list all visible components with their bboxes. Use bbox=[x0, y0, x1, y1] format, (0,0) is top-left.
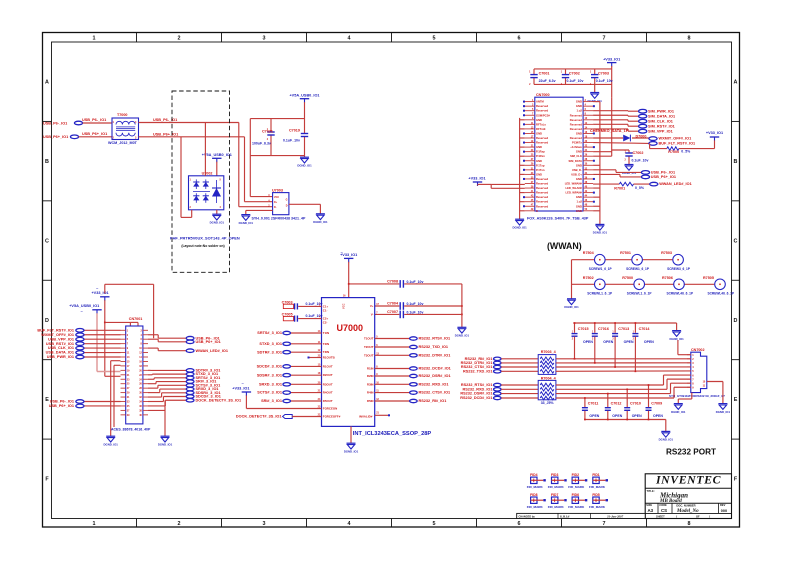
ground symbol bbox=[455, 327, 470, 337]
svg-text:DGND_IO1: DGND_IO1 bbox=[671, 410, 686, 414]
svg-text:U7000: U7000 bbox=[337, 323, 364, 333]
svg-text:OF: OF bbox=[696, 514, 700, 518]
power bbox=[91, 291, 109, 301]
wire BUF_FLT line bbox=[593, 142, 649, 145]
dashed layout box bbox=[172, 91, 230, 272]
svg-text:R2OUT: R2OUT bbox=[323, 373, 333, 377]
wire SDSR#_3_IO1 right cn7001 bbox=[148, 393, 186, 397]
svg-text:ANTM: ANTM bbox=[536, 100, 545, 104]
wire SIM_DATA_IO1 bbox=[593, 114, 639, 117]
port BUF_FLT_RST#_IO1 bbox=[76, 329, 84, 333]
svg-text:WXMIT_OFF#_IO1: WXMIT_OFF#_IO1 bbox=[41, 333, 74, 337]
capacitor C7002 bbox=[612, 150, 649, 165]
wire T2OUT to RS232_TXD_IO1 bbox=[375, 346, 410, 348]
svg-text:R5OUT: R5OUT bbox=[323, 399, 333, 403]
ground symbol bbox=[104, 436, 119, 446]
svg-text:R7003_4: R7003_4 bbox=[541, 350, 557, 354]
port RS232_DTR#_IO1 cn7002 bbox=[494, 361, 502, 364]
svg-text:RS232_TXD_IO1: RS232_TXD_IO1 bbox=[419, 345, 449, 349]
capacitor C7015 bbox=[572, 322, 594, 360]
power bbox=[706, 131, 723, 141]
wire screw row1 bbox=[572, 259, 673, 261]
svg-text:VCC: VCC bbox=[342, 303, 346, 309]
svg-text:Reserved: Reserved bbox=[536, 109, 548, 113]
wire power to U7002 bbox=[216, 162, 218, 176]
svg-text:SIZE: SIZE bbox=[646, 503, 652, 507]
svg-text:GND: GND bbox=[536, 159, 542, 163]
screw R7501 bbox=[620, 251, 650, 271]
svg-text:FORCEOFF#: FORCEOFF# bbox=[323, 415, 341, 419]
svg-text:C7004: C7004 bbox=[387, 302, 399, 306]
svg-text:TITLE:: TITLE: bbox=[647, 489, 655, 493]
svg-text:WXMIT_OFF#_IO1: WXMIT_OFF#_IO1 bbox=[659, 137, 692, 141]
svg-text:U7003: U7003 bbox=[272, 188, 283, 192]
svg-text:6: 6 bbox=[518, 521, 521, 527]
svg-text:OPEN: OPEN bbox=[632, 414, 642, 418]
port USB_CLK_IO1 bbox=[76, 346, 84, 350]
svg-text:C2-: C2- bbox=[323, 321, 328, 325]
wire v33 rail top bbox=[105, 284, 154, 338]
port USB_P6- wwan bbox=[641, 171, 649, 175]
svg-text:RS232_DTR#_IO1: RS232_DTR#_IO1 bbox=[419, 353, 451, 357]
svg-text:T7000: T7000 bbox=[117, 113, 127, 117]
wire USB_P6- to port bbox=[593, 170, 641, 173]
port RS232_RI#_IO1 cn7002 bbox=[494, 357, 502, 360]
power bbox=[289, 94, 319, 103]
svg-text:USB_P6-_IO1: USB_P6-_IO1 bbox=[153, 118, 177, 122]
svg-text:C7008: C7008 bbox=[387, 280, 398, 284]
svg-text:SIM_DATA: SIM_DATA bbox=[569, 159, 582, 163]
svg-text:R1OUT: R1OUT bbox=[323, 364, 333, 368]
port SIM_DATA_IO1 bbox=[639, 114, 647, 118]
wire v5a down to pin bbox=[97, 313, 121, 371]
svg-text:T1OUT: T1OUT bbox=[364, 337, 374, 341]
svg-text:WWAN_LED#_IO1: WWAN_LED#_IO1 bbox=[659, 182, 692, 186]
wire WXMIT line bbox=[593, 137, 649, 139]
svg-text:WCM_J012_M0T: WCM_J012_M0T bbox=[108, 141, 138, 145]
wire left bus down2 bbox=[111, 361, 121, 427]
ground symbol bbox=[622, 165, 637, 175]
port SRI#_3_IO1 right cn7001 bbox=[186, 380, 194, 384]
svg-text:0.1uF_10v: 0.1uF_10v bbox=[407, 302, 424, 306]
port USB_DATA_IO1 bbox=[76, 351, 84, 355]
svg-text:RS232_DSR#_IO1: RS232_DSR#_IO1 bbox=[419, 374, 451, 378]
svg-text:BUF_FLT_RST#_IO1: BUF_FLT_RST#_IO1 bbox=[659, 142, 696, 146]
svg-text:Reserved: Reserved bbox=[536, 104, 548, 108]
svg-text:7: 7 bbox=[603, 36, 606, 42]
svg-text:USB_DATA_IO1: USB_DATA_IO1 bbox=[46, 351, 74, 355]
wire v33 to pins 37 39 bbox=[478, 184, 525, 188]
svg-text:C7014: C7014 bbox=[639, 327, 651, 331]
svg-text:FID_MARK: FID_MARK bbox=[548, 505, 565, 509]
revision strip bbox=[517, 513, 646, 518]
port RS232_CTS#_IO1 bbox=[410, 391, 418, 394]
port RS232_RTS#_IO1 cn7002 bbox=[494, 383, 502, 386]
fiducial FID2 bbox=[568, 473, 587, 489]
capacitor C7011 bbox=[582, 397, 600, 420]
wire WWAN_LED line bbox=[593, 183, 650, 185]
wire SRTS#_3_IO1 right cn7001 bbox=[148, 378, 186, 379]
svg-text:SRTS#_3_IO1: SRTS#_3_IO1 bbox=[257, 331, 282, 335]
wire left bus down1 bbox=[110, 361, 112, 437]
svg-text:R1IN: R1IN bbox=[367, 367, 374, 371]
svg-text:CN7000: CN7000 bbox=[536, 93, 550, 97]
wire open cap bus top bbox=[573, 323, 676, 331]
svg-text:C7013: C7013 bbox=[618, 327, 629, 331]
svg-text:Reserved: Reserved bbox=[536, 204, 548, 208]
svg-text:T1IN: T1IN bbox=[323, 331, 329, 335]
svg-text:DGND_IO1: DGND_IO1 bbox=[564, 305, 579, 309]
svg-text:A: A bbox=[45, 80, 49, 86]
svg-text:Reserved: Reserved bbox=[536, 182, 548, 186]
fiducial FID4 bbox=[527, 473, 546, 489]
wire SRI#_3_IO1 to R5OUT bbox=[291, 400, 322, 402]
svg-text:Reserved: Reserved bbox=[570, 118, 582, 122]
svg-text:DGND_IO1: DGND_IO1 bbox=[659, 438, 674, 442]
svg-text:+V33_IO1: +V33_IO1 bbox=[468, 176, 485, 180]
svg-text:C: C bbox=[734, 238, 738, 244]
svg-text:GND: GND bbox=[576, 131, 582, 135]
wire cap gnd vertical bbox=[461, 284, 463, 327]
port SRXD_3_IO1 right cn7001 bbox=[186, 387, 194, 391]
svg-text:SDCD#_3_IO1: SDCD#_3_IO1 bbox=[257, 365, 282, 369]
svg-text:REV: REV bbox=[720, 503, 726, 507]
svg-text:USB_P6-_IO1: USB_P6-_IO1 bbox=[651, 171, 675, 175]
svg-text:USB_P6+_IO1: USB_P6+_IO1 bbox=[196, 340, 221, 344]
svg-text:DOC. NUMBER: DOC. NUMBER bbox=[676, 503, 695, 507]
svg-text:K.H.Lii: K.H.Lii bbox=[559, 515, 570, 519]
op-amp U7000 body bbox=[322, 294, 375, 426]
svg-text:GND: GND bbox=[576, 163, 582, 167]
svg-text:D: D bbox=[734, 318, 738, 324]
port SRXD_3_IO1 bbox=[283, 383, 291, 386]
pin R1OUTB bbox=[308, 355, 335, 360]
svg-text:+3.3Vaux: +3.3Vaux bbox=[570, 145, 582, 149]
svg-text:000: 000 bbox=[721, 509, 727, 513]
svg-text:USB_P6+_IO1: USB_P6+_IO1 bbox=[651, 175, 676, 179]
port RS232_RXD_IO1 cn7002 bbox=[494, 388, 502, 391]
title block bbox=[645, 474, 731, 519]
svg-text:A: A bbox=[734, 80, 738, 86]
pin FORCEOFF# bbox=[318, 414, 341, 419]
svg-text:+V33_IO1: +V33_IO1 bbox=[706, 131, 723, 135]
svg-text:C7009: C7009 bbox=[651, 402, 662, 406]
svg-text:SIM_RST#_IO1: SIM_RST#_IO1 bbox=[648, 124, 675, 128]
port WWAN_LED#_IO1 right cn7001 bbox=[186, 349, 194, 353]
svg-text:FID6: FID6 bbox=[572, 493, 579, 497]
port DOCK_DETECT#_3S_IO1 bbox=[283, 415, 293, 419]
svg-text:D7000: D7000 bbox=[636, 135, 647, 139]
wire open cap bus bottom bbox=[585, 420, 666, 432]
port SCTS#_3_IO1 right cn7001 bbox=[186, 384, 194, 388]
wire SCTS#_3_IO1 to R4OUT bbox=[291, 392, 322, 394]
wire R5IN to RS232_RI#_IO1 bbox=[375, 400, 410, 402]
svg-text:+V33_IO1: +V33_IO1 bbox=[603, 57, 620, 61]
wire SRI#_3_IO1 right cn7001 bbox=[148, 382, 186, 384]
wire choke out1 bbox=[139, 122, 239, 124]
svg-text:6: 6 bbox=[518, 36, 521, 42]
ground symbol bbox=[297, 157, 312, 167]
capacitor C7016 bbox=[592, 322, 614, 364]
wire vcc decoupling bbox=[348, 283, 462, 285]
svg-text:8: 8 bbox=[688, 36, 691, 42]
wire choke out2 bbox=[139, 136, 245, 138]
pin R4IN bbox=[367, 390, 379, 395]
svg-text:LED_WPAN#: LED_WPAN# bbox=[566, 191, 583, 195]
svg-text:R7501: R7501 bbox=[620, 251, 631, 255]
svg-text:USB_P6+_IO1: USB_P6+_IO1 bbox=[49, 404, 74, 408]
connector CN7002 bbox=[687, 348, 707, 393]
svg-text:C7010: C7010 bbox=[630, 402, 641, 406]
power bbox=[232, 387, 251, 396]
svg-text:Reserved: Reserved bbox=[570, 122, 582, 126]
svg-text:SYH_0.001 2SFR00438 3421_4P: SYH_0.001 2SFR00438 3421_4P bbox=[252, 217, 307, 221]
port USB_P6+ bbox=[70, 135, 78, 139]
port SDTR#_3_IO1 right cn7001 bbox=[186, 369, 194, 373]
resistor pack R7003 bbox=[538, 350, 556, 374]
ground symbol bbox=[588, 93, 603, 103]
pin T1OUT bbox=[364, 336, 378, 341]
svg-text:C7015: C7015 bbox=[578, 327, 589, 331]
svg-text:C7003: C7003 bbox=[282, 300, 293, 304]
svg-text:T2OUT: T2OUT bbox=[364, 345, 374, 349]
svg-text:7: 7 bbox=[603, 521, 606, 527]
svg-text:RS232_TXD_IO1: RS232_TXD_IO1 bbox=[463, 369, 493, 373]
svg-text:CHANGED by: CHANGED by bbox=[519, 515, 536, 518]
svg-text:C1-: C1- bbox=[323, 308, 328, 312]
svg-text:USB_D-: USB_D- bbox=[572, 168, 582, 172]
svg-text:(Layout note:No solder on): (Layout note:No solder on) bbox=[181, 244, 224, 248]
ground symbol bbox=[210, 214, 225, 224]
svg-text:DGND_IO1: DGND_IO1 bbox=[104, 443, 119, 447]
port SRI#_3_IO1 bbox=[283, 399, 291, 402]
screw R7506 bbox=[662, 276, 694, 296]
port SIM_PWR_IO1 bbox=[639, 109, 647, 113]
wire R4IN to RS232_CTS#_IO1 bbox=[375, 392, 410, 394]
svg-text:C7001: C7001 bbox=[539, 72, 550, 76]
wire U7000 gnd bbox=[350, 426, 352, 443]
pin R1IN bbox=[367, 366, 378, 371]
svg-text:0.1uF_10v: 0.1uF_10v bbox=[596, 79, 613, 83]
wire U7003 left gnd bbox=[246, 210, 273, 214]
port USB_P6+ wwan bbox=[641, 175, 649, 179]
svg-text:Reserved: Reserved bbox=[536, 195, 548, 199]
fiducial FID6 bbox=[568, 493, 587, 509]
svg-text:INVENTEC: INVENTEC bbox=[655, 473, 721, 487]
pin T1IN bbox=[318, 330, 329, 335]
svg-text:Reserved: Reserved bbox=[570, 136, 582, 140]
port BUF_FLT_RST# bbox=[649, 142, 657, 146]
screw R7505 bbox=[703, 276, 735, 296]
wire CN7002 shield gnd2 bbox=[707, 382, 723, 404]
svg-text:FID5: FID5 bbox=[592, 493, 599, 497]
common-mode choke T7000 bbox=[112, 113, 139, 139]
svg-text:0_5%: 0_5% bbox=[681, 149, 691, 153]
pin R2OUT bbox=[318, 372, 333, 377]
pin R3OUT bbox=[318, 381, 333, 386]
svg-text:C7005: C7005 bbox=[282, 313, 293, 317]
svg-text:OPEN: OPEN bbox=[653, 414, 663, 418]
svg-text:CN7002: CN7002 bbox=[691, 348, 705, 352]
fiducial FID3 bbox=[548, 473, 567, 489]
svg-text:V+: V+ bbox=[370, 304, 374, 308]
svg-text:SCTS#_3_IO1: SCTS#_3_IO1 bbox=[257, 391, 282, 395]
power bbox=[69, 304, 101, 314]
svg-text:0.1uF_10v: 0.1uF_10v bbox=[283, 138, 300, 142]
wire STXD_3_IO1 to T2IN bbox=[291, 343, 322, 345]
svg-text:SIM_CLK_IO1: SIM_CLK_IO1 bbox=[648, 119, 673, 123]
svg-text:STXD_3_IO1: STXD_3_IO1 bbox=[259, 342, 282, 346]
wire SIM_RST#_IO1 bbox=[593, 124, 639, 126]
capacitor C7019 bbox=[283, 129, 308, 158]
svg-text:LED_WWAN#: LED_WWAN# bbox=[565, 182, 583, 186]
port RS232_TXD_IO1 bbox=[410, 345, 418, 348]
svg-text:P.1Rxp: P.1Rxp bbox=[536, 150, 545, 154]
wire v33 rail right pins bbox=[593, 97, 612, 156]
port RS232_DSR#_IO1 cn7002 bbox=[494, 392, 502, 395]
svg-text:DGND_IO1: DGND_IO1 bbox=[593, 231, 608, 235]
svg-text:0.1uF_10v: 0.1uF_10v bbox=[407, 280, 424, 284]
wire WXMIT_OFF#_IO1 to CN7001 bbox=[84, 334, 121, 336]
svg-text:CODE: CODE bbox=[659, 503, 667, 507]
svg-text:E: E bbox=[45, 397, 49, 403]
wire U7002 pin to data2 bbox=[181, 137, 192, 218]
capacitor C7003 bbox=[282, 300, 323, 309]
svg-text:R1OUTB: R1OUTB bbox=[323, 356, 335, 360]
svg-text:DGND_IO1: DGND_IO1 bbox=[716, 410, 731, 414]
ground symbol bbox=[671, 404, 686, 414]
svg-text:RFTxLo: RFTxLo bbox=[536, 122, 546, 126]
svg-text:INVALID#: INVALID# bbox=[359, 414, 373, 418]
svg-text:C7012: C7012 bbox=[611, 402, 622, 406]
svg-text:CS: CS bbox=[661, 508, 667, 513]
wire screw row2 bbox=[572, 283, 715, 285]
svg-text:P.1Txp: P.1Txp bbox=[536, 163, 545, 167]
wire USB_P6+ to CN7001 bbox=[84, 405, 121, 407]
svg-text:USB_D+: USB_D+ bbox=[571, 172, 582, 176]
power bbox=[202, 153, 232, 162]
svg-text:E: E bbox=[734, 397, 738, 403]
wire T3OUT to RS232_DTR#_IO1 bbox=[375, 354, 410, 356]
svg-text:C7002: C7002 bbox=[633, 151, 644, 155]
svg-text:R5IN: R5IN bbox=[367, 399, 374, 403]
resistor R7000 bbox=[667, 147, 691, 154]
pin R3IN bbox=[367, 381, 380, 386]
port STXD_3_IO1 bbox=[283, 342, 291, 345]
svg-text:USB_VPP_IO1: USB_VPP_IO1 bbox=[48, 337, 74, 341]
svg-text:OPEN: OPEN bbox=[644, 340, 654, 344]
port USB_PWR_IO1 bbox=[76, 355, 84, 359]
svg-text:SCREW3_6_1P: SCREW3_6_1P bbox=[667, 267, 691, 271]
wires rpack2 to CN7002 bbox=[556, 375, 691, 398]
svg-text:D-: D- bbox=[274, 206, 277, 209]
svg-text:V-: V- bbox=[371, 312, 374, 316]
ESD array U7002 bbox=[189, 171, 224, 210]
wire SRTS#_3_IO1 to T1IN bbox=[291, 332, 322, 334]
power bbox=[468, 176, 485, 186]
wire R3IN to RS232_RXD_IO1 bbox=[375, 383, 410, 385]
svg-text:FID_MARK: FID_MARK bbox=[589, 485, 606, 489]
svg-text:R7506: R7506 bbox=[662, 276, 673, 280]
svg-text:33_J5%: 33_J5% bbox=[541, 401, 555, 405]
svg-text:FID_MARK: FID_MARK bbox=[568, 485, 585, 489]
resistor R7001 bbox=[614, 182, 645, 190]
svg-text:C7011: C7011 bbox=[588, 402, 599, 406]
svg-text:USB_P6-_IO1: USB_P6-_IO1 bbox=[50, 400, 74, 404]
fiducial FID8 bbox=[527, 493, 546, 509]
wire right bus down bbox=[148, 401, 165, 437]
zone column ticks bbox=[43, 33, 740, 528]
wire USB_P6+ to choke bbox=[79, 136, 112, 138]
port USB_P6+ cn7001 bbox=[76, 404, 84, 408]
wire USB_P6- to CN7001 bbox=[84, 401, 121, 403]
wire SDCD#_3_IO1 right cn7001 bbox=[148, 397, 186, 402]
svg-text:RS232_RI#_IO1: RS232_RI#_IO1 bbox=[419, 399, 447, 403]
wire DOCK_DETECT#_3S_IO1 right cn7001 bbox=[148, 400, 186, 406]
svg-text:SRXD_3_IO1: SRXD_3_IO1 bbox=[259, 382, 282, 386]
wire T1OUT to RS232_RTS#_IO1 bbox=[375, 338, 410, 340]
svg-text:FID_MARK: FID_MARK bbox=[527, 505, 544, 509]
svg-text:INT_ICL3243ECA_SSOP_28P: INT_ICL3243ECA_SSOP_28P bbox=[353, 431, 432, 437]
wire BUF_FLT_RST#_IO1 to CN7001 bbox=[84, 329, 121, 331]
svg-text:C7002: C7002 bbox=[569, 72, 580, 76]
port SDSR#_3_IO1 bbox=[283, 374, 291, 377]
svg-text:Model_No: Model_No bbox=[676, 509, 699, 514]
port SRTS#_3_IO1 bbox=[283, 331, 291, 334]
svg-text:1.u2: 1.u2 bbox=[577, 109, 583, 113]
ground symbol bbox=[239, 215, 254, 225]
wire SDTR#_3_IO1 to T3IN bbox=[291, 351, 322, 353]
wire RS232_CTS#_IO1 to rpack bbox=[501, 366, 538, 368]
svg-text:CN7001: CN7001 bbox=[129, 317, 143, 321]
pin V- bbox=[371, 311, 378, 316]
wire vbus bottom bbox=[250, 155, 304, 157]
svg-text:BUF_FLT_RST#_IO1: BUF_FLT_RST#_IO1 bbox=[37, 328, 74, 332]
svg-text:SCREWL46_6_1P: SCREWL46_6_1P bbox=[667, 291, 694, 295]
svg-text:GND: GND bbox=[536, 131, 542, 135]
border frame bbox=[43, 33, 740, 528]
svg-text:SCREWL46_6_1P: SCREWL46_6_1P bbox=[708, 291, 735, 295]
svg-text:R7004_4: R7004_4 bbox=[541, 376, 557, 380]
svg-text:+V5A_USB0_IO1: +V5A_USB0_IO1 bbox=[289, 94, 319, 98]
svg-text:Reserved: Reserved bbox=[570, 113, 582, 117]
svg-text:USB_P6-_IO1: USB_P6-_IO1 bbox=[43, 121, 67, 125]
svg-text:GND: GND bbox=[536, 118, 542, 122]
svg-text:1.u2: 1.u2 bbox=[577, 200, 583, 204]
svg-text:OPEN: OPEN bbox=[624, 340, 634, 344]
svg-text:D: D bbox=[45, 318, 49, 324]
svg-text:R7505: R7505 bbox=[703, 276, 714, 280]
svg-text:R3IN: R3IN bbox=[367, 382, 374, 386]
svg-text:FID_MARK: FID_MARK bbox=[548, 485, 565, 489]
power bbox=[340, 253, 357, 262]
wires rpack1 to CN7002 bbox=[556, 359, 691, 372]
svg-text:PCM/Tx: PCM/Tx bbox=[572, 141, 582, 145]
svg-text:C7019: C7019 bbox=[289, 129, 300, 133]
svg-text:GND: GND bbox=[536, 172, 542, 176]
ground symbol bbox=[564, 299, 579, 309]
wire CN7002 pin1 bbox=[678, 340, 691, 355]
svg-text:USB_RST#_IO1: USB_RST#_IO1 bbox=[46, 342, 74, 346]
pin FORCEON bbox=[318, 406, 338, 411]
wire v33 to R7000 bbox=[650, 140, 715, 148]
port RS232_DCD#_IO1 cn7002 bbox=[494, 396, 502, 399]
svg-text:DOCK_DETECT#_3S_IO1: DOCK_DETECT#_3S_IO1 bbox=[236, 415, 282, 419]
svg-text:2: 2 bbox=[178, 36, 181, 42]
ground symbol bbox=[659, 431, 674, 441]
svg-text:FID8: FID8 bbox=[530, 493, 537, 497]
wire SDSR#_3_IO1 to R2OUT bbox=[291, 374, 322, 376]
